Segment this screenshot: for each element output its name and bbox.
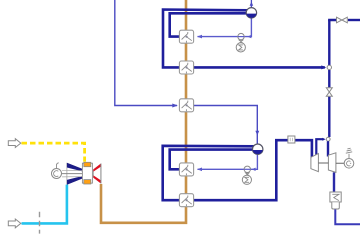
wire cyan inlet stream to expander — [22, 185, 67, 224]
transfer symbol T1 circle on stream — [238, 33, 244, 39]
motor power supply marks — [346, 148, 352, 158]
compressor stage 2 trapezoid — [328, 153, 336, 173]
arrow into HX A right side — [197, 35, 202, 39]
arrow into HX C — [172, 104, 178, 108]
small block K1 on compressor suction line — [288, 136, 295, 143]
valve VLV1 on top right horizontal — [337, 17, 348, 23]
HX B block — [179, 61, 193, 74]
wire thick navy outer loop bottom cluster: drum V2 to HX E — [163, 146, 255, 200]
HX A block — [179, 30, 193, 43]
wire stage2 discharge down to aftercooler — [333, 172, 335, 192]
drum V1 (half filled separator) — [246, 8, 256, 18]
junction J1 — [327, 65, 331, 69]
expander navy blade stripes — [67, 163, 83, 172]
expander center box with orange pads — [82, 163, 92, 183]
HX C block — [179, 99, 193, 112]
wire stage1 discharge up and right to junction J2 — [316, 139, 323, 155]
bowtie link T2 — [246, 173, 249, 176]
wire thick navy outer loop top cluster: drum V1 to HX B — [163, 10, 249, 68]
motor M1 — [344, 159, 354, 169]
arrow left at corner before symbol — [247, 35, 251, 38]
expander cone outline — [67, 163, 83, 184]
arrow into junction J1 — [321, 65, 326, 69]
bowtie link T1 — [239, 40, 242, 43]
drum V2 (half filled separator) — [253, 144, 263, 154]
arrow into junction J2 — [322, 138, 325, 141]
sigma block S2 — [242, 175, 251, 184]
wire junction J2 down into compressor stage 2 — [327, 141, 329, 156]
wire thin blue feed from top edge down to HX C — [115, 0, 177, 106]
junction J2 — [326, 137, 330, 141]
booster cone outline — [93, 164, 101, 183]
wire yellow dashed energy stream — [22, 143, 85, 162]
wire thick navy inner loop top cluster: drum V1 to HX A — [170, 13, 249, 36]
wire orange refrigerant main: turbine outlet down, right, up through exchangers to top edge — [101, 0, 186, 223]
wire thin line drum V1 top vapor to top edge — [250, 0, 252, 8]
HX E block — [179, 194, 193, 207]
wire drum V2 bottom liquid down, left to HX D — [198, 155, 258, 170]
wire cooler outlet down and right to edge — [335, 209, 360, 224]
stream break tick on cyan line — [39, 212, 41, 234]
compressor stage 1 trapezoid — [311, 154, 319, 172]
wire thick navy right main vertical with top exit — [328, 20, 330, 65]
wire thick navy inner loop bottom cluster: drum V2 to HX D — [170, 150, 255, 170]
arrow into HX D right side — [197, 168, 202, 172]
wire thick navy HX B out to right junction — [194, 66, 325, 69]
transfer symbol T2 circle on stream — [244, 166, 250, 172]
feed arrow F1 (yellow stream source) — [8, 139, 20, 148]
generator G circle — [52, 169, 62, 179]
valve VLV2 on right vertical — [326, 88, 332, 97]
knockout cup — [332, 202, 340, 209]
HX D block — [179, 163, 193, 176]
aftercooler box — [330, 192, 341, 209]
shaft lines — [318, 162, 344, 164]
booster red blade stripes — [93, 164, 101, 172]
wire HX C outlet right then down to drum V2 — [194, 106, 258, 144]
shaft generator to expander — [62, 173, 83, 175]
arrow left near corner — [252, 168, 256, 171]
wire drum V1 bottom liquid down, left to HX A — [198, 18, 252, 36]
wire thick navy HX E out right, up, to compressor stage 1 — [194, 140, 312, 200]
arrow down into drum V2 — [255, 131, 259, 136]
sigma block S1 — [236, 43, 245, 52]
feed arrow F2 (cyan stream source) — [8, 219, 20, 228]
